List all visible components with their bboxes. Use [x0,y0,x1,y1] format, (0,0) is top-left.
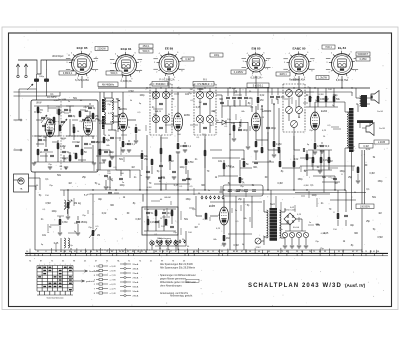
ground [110,156,114,158]
coil [64,200,66,209]
wire [105,180,107,186]
wire [277,99,279,104]
wire primary feed [275,196,277,208]
wire [309,88,311,96]
socket leads [242,58,271,67]
svg-text:0,3M: 0,3M [369,173,374,175]
svg-text:1M: 1M [226,237,229,240]
wire [34,105,94,107]
ground [48,166,52,168]
wire [77,224,79,232]
svg-text:Netz: Netz [270,203,276,206]
svg-text:gegen Masse gemessen.: gegen Masse gemessen. [160,277,187,280]
wire heater drop [125,76,127,88]
wire [369,123,371,126]
wire [284,238,286,245]
wire [175,245,177,250]
wire [345,111,349,113]
capacitor [50,154,54,156]
wire [99,92,101,170]
junction [293,87,294,88]
wire [122,92,124,113]
capacitor [110,136,114,138]
secondary winding [280,210,281,238]
wire [128,119,136,121]
svg-text:1M: 1M [75,157,78,159]
svg-text:10n: 10n [167,212,172,215]
svg-text:4: 4 [115,54,116,56]
wire [45,136,47,147]
wire [155,91,157,99]
wire [98,119,100,121]
capacitor [42,124,46,126]
wire [187,170,189,176]
wire [63,190,65,196]
wire [46,60,48,79]
wire rail [293,132,295,190]
wire (dashed) [150,83,172,85]
resistor [239,177,242,183]
svg-text:5 x 50/0,1: 5 x 50/0,1 [253,84,264,87]
note underline boxes [186,279,199,282]
wire [103,124,105,135]
wire feedback [300,165,355,167]
svg-text:0,1M: 0,1M [363,145,368,148]
resistor [337,213,340,219]
wire [147,225,149,231]
coil [112,98,113,110]
wire [110,121,118,123]
svg-text:94mA: 94mA [133,285,139,288]
wire [116,169,140,171]
svg-text:0,02: 0,02 [102,213,107,215]
svg-text:100/300V: 100/300V [360,205,371,208]
wire [163,215,165,231]
svg-text:2M: 2M [97,235,100,237]
wire [165,115,167,123]
svg-text:10,7MHz: 10,7MHz [47,96,57,99]
wire [239,88,241,96]
wire [171,216,173,224]
wire [144,208,176,210]
svg-text:25mA: 25mA [133,272,139,275]
svg-text:0,5M: 0,5M [377,237,382,239]
AM input coil core [102,116,105,129]
wire [108,129,116,131]
ground [283,245,287,247]
wire [245,100,247,106]
wire [359,123,361,128]
wire drop [278,108,280,146]
value label [359,144,373,149]
screen partition [60,101,62,171]
capacitor [333,177,337,179]
wire [155,245,186,247]
resistor [160,148,163,154]
wire [351,92,353,96]
wire [356,97,361,99]
switch contact [222,196,224,198]
svg-text:= 7,2V: = 7,2V [110,275,117,277]
svg-text:100: 100 [320,98,325,101]
resistor [92,230,95,236]
junction [187,189,188,190]
pin numbers [284,49,314,79]
wire [63,146,65,149]
tube socket [245,52,267,74]
switch contact [165,240,167,242]
wire tie [240,167,252,169]
wire [216,94,222,96]
ground [127,149,131,151]
wire [306,106,338,108]
wire B+ bus [98,87,370,89]
capacitor [146,211,150,213]
wire [92,237,94,250]
wire [320,163,322,170]
IF coil [196,91,203,98]
junction [141,168,142,169]
wire [255,131,257,140]
wire [196,215,202,217]
detector coil [286,107,293,114]
svg-text:4: 4 [159,53,160,55]
IF coil [162,115,169,122]
svg-text:0,2M: 0,2M [60,145,65,148]
svg-text:4: 4 [247,53,248,55]
capacitor [172,170,176,172]
svg-text:7 x 50/0,1: 7 x 50/0,1 [198,83,209,86]
mains transformer [270,208,278,241]
wire [63,155,65,162]
switch contact [179,240,181,242]
wire [345,147,349,149]
wire (dashed) [283,83,305,85]
junction [239,122,241,124]
wire [223,160,225,176]
field coil choke [349,108,354,152]
wire drop [261,106,263,146]
ground [290,245,294,247]
svg-text:ohne Abweichungen.: ohne Abweichungen. [160,285,183,288]
ground [64,166,68,168]
wire rail [204,135,206,190]
svg-text:0,25M: 0,25M [360,58,367,61]
svg-text:0,3M: 0,3M [297,95,302,97]
table pointer arrows [74,270,88,282]
capacitor [104,174,108,176]
svg-text:0,02: 0,02 [366,149,371,151]
phono connection box [223,185,263,196]
tube socket [157,51,182,76]
electrolytic capacitors 50+50uF [282,232,287,237]
wire heater drop [255,76,257,88]
wire [298,113,300,118]
wire [39,136,41,137]
wire [151,166,153,172]
resistor [141,153,144,159]
wire [66,105,74,107]
capacitor [64,108,68,110]
resistor [103,137,106,143]
svg-text:1M: 1M [115,116,118,118]
svg-text:0,3M: 0,3M [62,221,67,224]
value label [182,57,194,61]
wire [298,238,300,245]
wire [60,91,352,93]
svg-text:6: 6 [135,53,136,55]
svg-text:150p: 150p [185,199,191,201]
svg-text:0,02: 0,02 [294,159,299,161]
resistor [293,161,296,167]
wire [251,106,253,112]
wire [216,121,222,123]
socket leads [110,60,142,71]
matching arrow [27,84,33,90]
wire drop [267,132,269,150]
ground [304,245,308,247]
svg-text:= 4,7V: = 4,7V [110,288,117,290]
svg-text:Antennenspg. geeicht: Antennenspg. geeicht [170,295,193,298]
svg-text:3: 3 [66,62,67,64]
wire [19,88,37,90]
wire [226,121,234,123]
resistor [59,125,62,131]
junction [273,103,275,105]
junction [267,189,268,190]
wire [234,121,248,123]
IF coil [206,91,213,98]
tube ECH81 [118,113,127,131]
wire [357,174,359,180]
wire heater drop [298,76,300,88]
value label [247,83,269,88]
wire [199,123,201,133]
capacitor [158,176,162,178]
antenna 1 [16,64,20,75]
capacitor [302,148,304,152]
wire drop [235,196,237,250]
resistor [92,113,95,119]
junction [255,87,256,88]
svg-text:6: 6 [307,52,308,54]
switch contact [218,196,220,198]
wire [222,105,252,107]
wire [210,201,262,203]
svg-text:0,3M: 0,3M [54,100,59,102]
svg-text:5000/RFT: 5000/RFT [358,53,369,56]
svg-text:4: 4 [331,53,332,55]
svg-text:UKW-Dipol: UKW-Dipol [52,56,64,58]
capacitor [68,114,72,116]
ground [121,149,125,151]
resistor [79,111,82,117]
capacitor [38,138,42,140]
svg-text:1M: 1M [169,94,172,96]
wire [73,124,75,127]
svg-text:100p: 100p [119,185,125,187]
wire rail [323,150,325,193]
value label [316,76,329,80]
resistor [122,141,125,147]
wire [18,89,20,120]
svg-text:= 9,4V: = 9,4V [110,266,117,268]
resistor [135,127,138,133]
wire [344,101,345,103]
wire [187,176,189,190]
wire [257,88,259,96]
wire [362,127,366,129]
wire [357,104,359,112]
resistor [278,147,281,153]
wire [345,190,347,212]
svg-text:56mA: 56mA [133,290,139,293]
wire [289,225,291,231]
band switch contact table [37,266,73,292]
wire [306,150,308,154]
wire [264,211,267,213]
svg-text:200p: 200p [271,127,277,130]
svg-text:0,5M: 0,5M [226,165,231,168]
svg-text:2500p: 2500p [81,221,88,224]
switch contact [170,240,172,242]
wire [317,102,319,107]
schematic border frame [9,33,392,307]
detector coil [296,90,303,97]
wire [135,124,137,126]
wire [60,238,62,250]
svg-text:EF 89: EF 89 [165,47,174,51]
capacitor [238,96,242,98]
coil [64,238,65,248]
capacitor [76,220,80,222]
output transformer [361,95,367,107]
svg-text:50+50: 50+50 [293,227,300,229]
svg-text:50/0,3: 50/0,3 [111,72,118,75]
wire heater drop [341,76,343,88]
wire (dashed) [171,84,173,135]
wire [96,155,142,157]
capacitor [320,144,324,146]
wire [151,245,153,250]
ground [313,151,317,153]
socket leads [153,59,184,69]
speaker 2 matching transformer [357,120,373,123]
IF coil [152,91,159,98]
wire [67,209,69,214]
wire [109,160,111,161]
svg-text:0,25: 0,25 [174,185,179,187]
wire [155,209,157,210]
junction [341,87,342,88]
wire heater drop [168,76,170,88]
wire [165,123,167,133]
wire tie [322,181,340,183]
svg-text:0,2M: 0,2M [276,143,281,146]
svg-text:0,3M: 0,3M [199,89,204,91]
wire [167,245,169,250]
wire [239,122,241,128]
capacitor [75,144,79,146]
wire [308,169,332,171]
value label [193,82,214,87]
wire drop [221,106,223,118]
legend keys [94,266,96,295]
wire rail [177,155,179,250]
wire (mechanical link) [93,249,150,251]
resistor [306,154,309,160]
ground [58,232,62,234]
wire [281,211,285,213]
wire [245,88,247,96]
svg-text:AM 460kHz: AM 460kHz [102,83,115,86]
wire [239,160,241,176]
svg-text:50/0,3: 50/0,3 [143,50,150,53]
wire [284,208,286,212]
wire drop [243,198,245,250]
tuning capacitor arrows [41,115,67,127]
wire [255,154,257,160]
capacitor [270,95,274,97]
screen partition [32,135,97,137]
svg-text:= 8,3V: = 8,3V [110,270,117,272]
svg-text:7: 7 [140,61,141,63]
voltage selector [255,238,261,244]
junction [160,87,161,88]
capacitor [220,101,224,103]
FM tuner unit box [31,100,98,172]
resistor [37,149,40,155]
svg-text:150p: 150p [297,179,303,181]
wire [98,149,110,151]
svg-text:ECC 85: ECC 85 [77,46,88,50]
resistor [317,96,320,102]
capacitor [159,126,163,128]
wire [69,152,71,155]
wire tie [300,157,312,159]
ground [176,151,180,153]
wire [29,177,41,179]
junction [351,87,352,88]
resistor [67,202,70,208]
wire [155,115,157,123]
capacitor [244,96,248,98]
svg-text:0,5M: 0,5M [233,245,238,247]
svg-text:1M: 1M [131,167,134,169]
table header marks [39,264,72,266]
wire [72,119,78,121]
svg-text:EABC 80: EABC 80 [292,47,305,51]
tone switch unit box [142,207,178,235]
wire [209,88,211,91]
svg-text:29mA: 29mA [133,276,139,279]
value label [231,70,246,74]
wire rail [146,135,148,250]
svg-text:1M: 1M [155,111,158,113]
wire [115,130,117,170]
ground [318,170,322,172]
svg-text:EABC80: EABC80 [262,110,272,113]
wire [59,226,61,232]
svg-text:70/0,1: 70/0,1 [325,46,332,49]
wire [355,88,357,98]
wire [160,176,162,190]
svg-text:0,02: 0,02 [260,95,265,97]
wire (dashed) [149,84,151,135]
wire [306,160,308,176]
junction [229,189,230,190]
capacitor [155,220,159,222]
